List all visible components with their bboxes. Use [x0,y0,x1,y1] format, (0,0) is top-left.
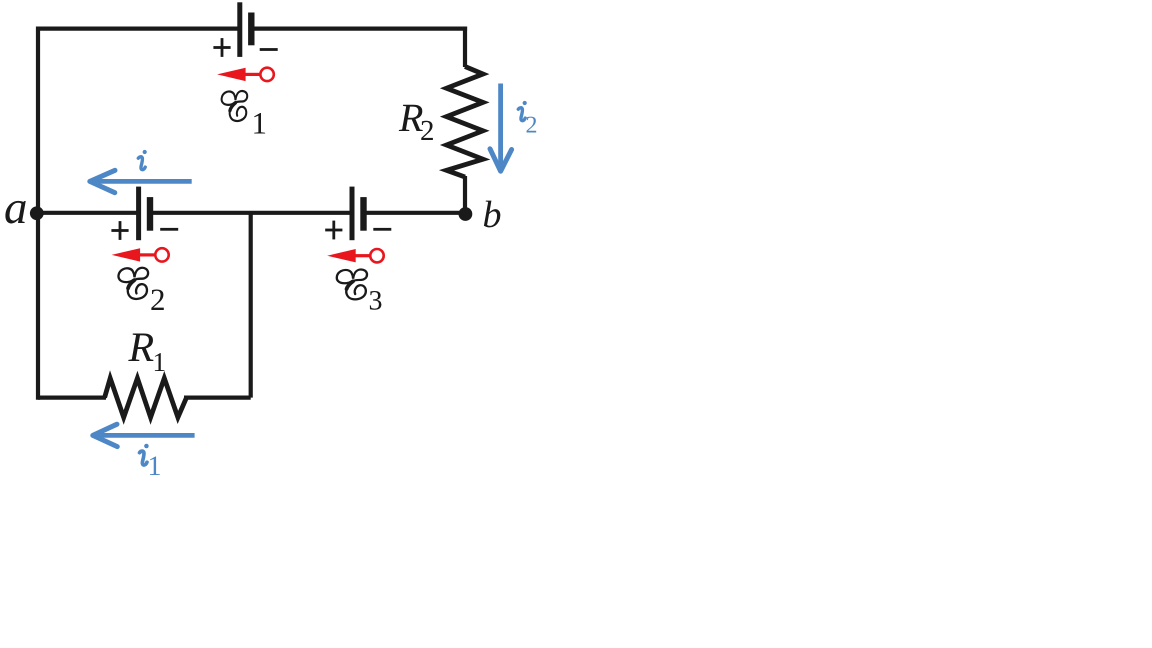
minus sign E3 [373,228,391,231]
node a junction dot [30,206,44,220]
wire middle segment a-to-battery2 [36,211,138,215]
emf label E1 [222,91,248,121]
label i1 glyph [140,444,149,465]
battery E3 long plate (+) [350,187,355,241]
emf label E2 [118,268,148,299]
wire middle segment battery2-to-battery3 [151,211,352,215]
label i2 subscript [527,117,537,133]
resistor R2 zigzag [447,67,484,178]
label i [138,150,147,170]
emf arrow E1 [217,68,274,81]
wire branch vertical [249,213,253,398]
current arrow i1 [93,424,195,446]
resistor R1 zigzag [105,378,187,417]
emf E3 subscript [370,291,382,310]
wire bottom right segment [184,396,251,400]
wire right vertical upper [463,27,467,68]
emf E2 subscript [151,289,163,310]
wire top right segment [252,27,468,31]
label i1 subscript [150,457,160,475]
label i2 glyph [518,101,527,121]
current arrow i2 [490,84,512,172]
label R1 [128,334,153,362]
node a label [5,201,25,224]
emf E1 subscript [254,113,265,133]
label R2 subscript [421,121,433,140]
minus sign E2 [160,228,178,231]
node b label [484,201,500,228]
wire right vertical lower [463,176,467,213]
battery E2 short plate (-) [147,197,153,231]
current arrow i [90,170,192,192]
minus sign E1 [260,48,278,51]
node b junction dot [459,207,473,221]
label R1 subscript [155,353,165,371]
plus sign E3 [325,221,342,240]
wire left vertical [36,27,40,400]
battery E2 long plate (+) [136,187,141,241]
emf label E3 [337,269,367,299]
wire middle segment battery3-to-b [364,211,465,215]
emf arrow E2 [112,248,169,261]
wire top left segment [36,27,240,31]
emf arrow E3 [327,249,383,262]
plus sign E2 [111,221,128,240]
wire bottom left segment [38,396,106,400]
battery E1 long plate (+) [237,2,242,57]
battery E3 short plate (-) [360,197,366,231]
battery E1 short plate (-) [248,13,254,46]
label R2 [399,105,423,131]
plus sign E1 [213,38,230,57]
